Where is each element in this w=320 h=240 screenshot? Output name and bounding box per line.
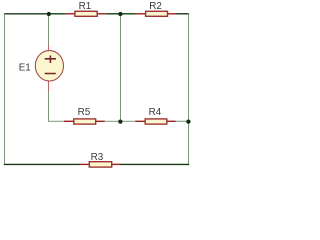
wire: left vertical xyxy=(4,13,6,164)
minus mark xyxy=(45,73,56,75)
wire: mid vertical (between R1/R2 down to R5/R4) xyxy=(120,14,122,121)
node: junction middle wire meets right vertical xyxy=(186,119,190,123)
resistor R3 xyxy=(79,152,120,167)
resistor R1 xyxy=(65,1,105,16)
wire: top horizontal net xyxy=(4,13,189,15)
svg-text:R3: R3 xyxy=(91,152,104,163)
svg-text:E1: E1 xyxy=(19,63,32,74)
node: junction on top wire above mid vertical xyxy=(118,12,122,16)
resistor R4 xyxy=(135,107,175,124)
svg-text:R1: R1 xyxy=(79,1,92,12)
wire: right vertical xyxy=(188,13,190,164)
wire: bottom horizontal net xyxy=(4,163,189,165)
node: junction on top wire above E1 xyxy=(47,12,51,16)
resistor R2 xyxy=(135,1,176,16)
svg-text:R4: R4 xyxy=(149,107,162,118)
body circle xyxy=(35,51,63,81)
node: junction on middle wire at mid vertical xyxy=(118,119,122,123)
voltage source E1 xyxy=(19,45,64,91)
wire: E1 top branch xyxy=(48,14,50,45)
pin 1 (top lead) xyxy=(48,45,50,51)
svg-text:R5: R5 xyxy=(78,107,91,118)
pin 2 (bottom lead) xyxy=(48,81,50,92)
svg-text:R2: R2 xyxy=(149,1,162,12)
plus mark xyxy=(45,56,56,64)
wire: E1 bottom branch xyxy=(48,91,50,121)
wire: middle horizontal net (light) xyxy=(48,120,189,122)
resistor R5 xyxy=(64,107,105,124)
